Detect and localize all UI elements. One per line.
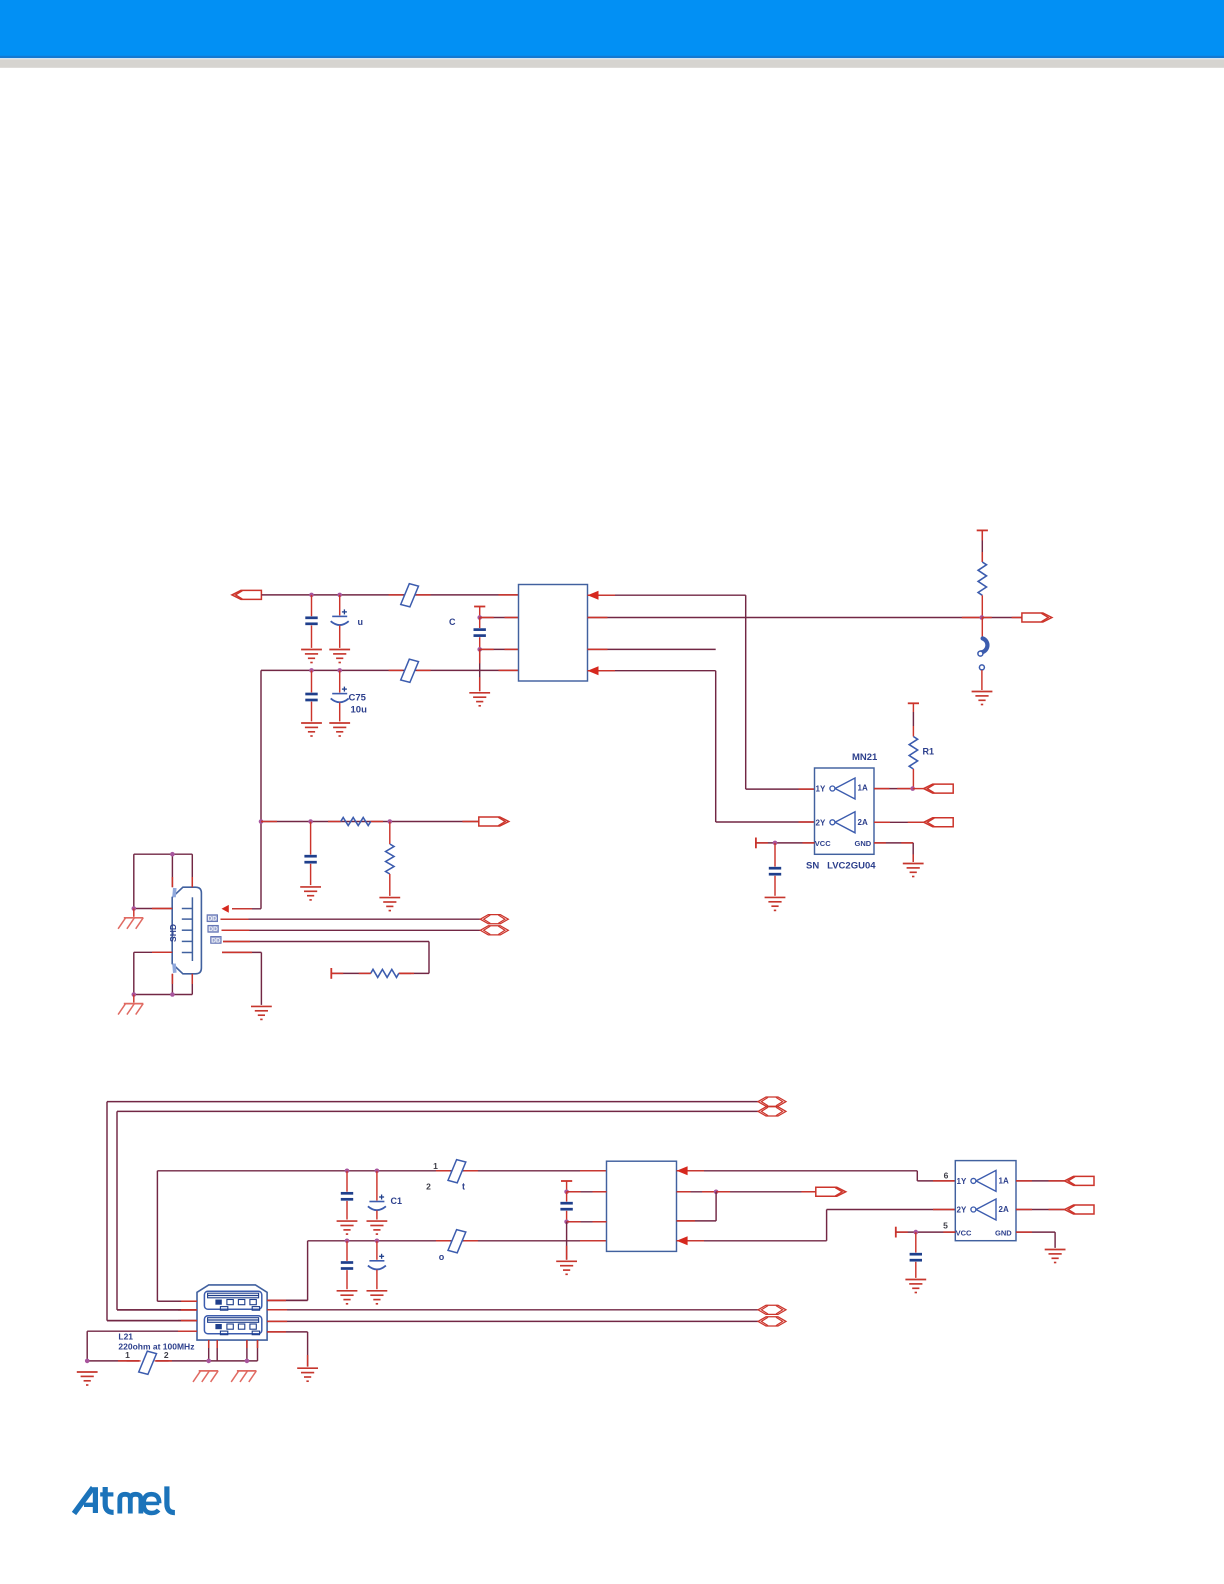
IC U1 (power switch) <box>519 585 588 682</box>
capacitor u (polarized) <box>331 595 349 648</box>
wire cap column lower <box>479 649 481 691</box>
wire tap down <box>566 1181 568 1192</box>
Atmel logo <box>74 1486 175 1513</box>
wire filter row <box>261 821 478 823</box>
header grey rule <box>0 59 1224 68</box>
wire USB pin1 with arrow <box>222 905 262 913</box>
ferrite bead (r1) <box>436 1170 450 1172</box>
wire to port 1A <box>913 788 924 790</box>
wire USB-A pin4 right <box>267 1332 308 1367</box>
wire USB-A pin1 left <box>157 1300 197 1302</box>
junction leg A <box>206 1359 211 1364</box>
ground <box>1045 1250 1066 1263</box>
resistor (ID pull) <box>399 972 411 974</box>
junction r1-c2 <box>375 1169 380 1174</box>
wire shield loop bottom <box>134 952 193 994</box>
junction shield left <box>132 906 137 911</box>
svg-text:1A: 1A <box>858 784 868 793</box>
wire resistor to terminal <box>331 972 370 974</box>
port P_left (left-pointing connector) <box>232 590 262 599</box>
capacitor (row B bypass) <box>305 670 317 721</box>
wire USB-A pin2 right (to port) <box>267 1309 758 1311</box>
power terminal VCC (lower inverter) <box>895 1227 897 1238</box>
power terminal (ID) <box>330 968 332 979</box>
power tap T (U2 VCC) <box>561 1180 572 1182</box>
wire top row 1 <box>107 1102 758 1321</box>
wire to chassis <box>133 995 135 1003</box>
wire 1A output <box>874 788 913 790</box>
svg-text:5: 5 <box>943 1221 948 1231</box>
wire USB-A pin4 left <box>87 1331 197 1361</box>
wire shield loop top <box>134 854 193 908</box>
svg-text:6: 6 <box>944 1171 949 1181</box>
wire U2 pin4R with arrow <box>677 1210 956 1246</box>
junction r2-c1 <box>345 1239 350 1244</box>
svg-text:VCC: VCC <box>815 839 831 848</box>
wire U2 pin1R with arrow <box>677 1166 956 1181</box>
junction A2 <box>337 593 342 598</box>
svg-text:2Y: 2Y <box>957 1206 967 1215</box>
USB-A port 2 graphic <box>204 1316 261 1335</box>
IC MN22 inverter box <box>955 1161 1016 1241</box>
resistor (pull-up) <box>978 562 986 595</box>
ground <box>77 1372 98 1385</box>
bidirectional port (row1) <box>758 1097 786 1106</box>
capacitor (r1 bypass) <box>341 1171 353 1220</box>
ground <box>367 1291 388 1304</box>
wire GND pin <box>874 842 913 844</box>
port 2A (left-pointing connector) <box>924 818 954 827</box>
ground <box>329 650 350 663</box>
junction filter C <box>308 819 313 824</box>
ground <box>301 650 322 663</box>
svg-text:u: u <box>358 617 364 627</box>
wire 2A output (lower) <box>1016 1209 1065 1211</box>
net label DD (pin2) <box>207 915 217 923</box>
junction filter R <box>388 819 393 824</box>
chassis ground <box>231 1371 256 1382</box>
svg-text:VCC: VCC <box>956 1228 972 1237</box>
inverter gate 1 (lower) <box>971 1170 996 1191</box>
ferrite bead (row A) <box>389 594 403 596</box>
net label DD (pin3) <box>208 925 218 933</box>
connector J_USBA shell <box>197 1285 267 1340</box>
wire pin2 left <box>480 617 519 619</box>
ground <box>301 723 322 736</box>
port 1A lower (left-pointing) <box>1065 1176 1095 1185</box>
wire L21 row <box>87 1360 257 1362</box>
wire row r2 (to IC) <box>267 1241 606 1301</box>
wire to chassis <box>133 909 135 917</box>
junction switch node <box>980 615 985 620</box>
wire USB pin4 <box>223 942 429 974</box>
svg-text:2: 2 <box>426 1182 431 1192</box>
wire rail to resistor <box>981 530 983 562</box>
wire cap column upper <box>479 607 481 618</box>
junction leg B <box>245 1359 250 1364</box>
junction shield bottom <box>170 992 175 997</box>
junction U2 vcc b <box>564 1220 569 1225</box>
solder jumper switch <box>978 618 988 691</box>
junction L21 left <box>85 1359 90 1364</box>
svg-text:DD: DD <box>208 926 218 933</box>
ground <box>905 1280 926 1293</box>
port 1A (left-pointing connector) <box>924 784 954 793</box>
wire U2 pin3 <box>567 1221 607 1223</box>
wire 1A output (lower) <box>1016 1180 1065 1182</box>
ground <box>337 1291 358 1304</box>
ferrite bead L21 <box>127 1360 141 1362</box>
port (right-pointing connector, filter out) <box>479 817 509 826</box>
junction shield top <box>170 852 175 857</box>
junction pin2R <box>714 1190 719 1195</box>
chassis ground <box>193 1371 218 1382</box>
svg-text:1A: 1A <box>999 1177 1009 1186</box>
ferrite bead (row B) <box>389 669 403 671</box>
ground <box>556 1261 577 1274</box>
resistor (series filter) <box>328 821 341 823</box>
wire resistor to junction <box>981 595 983 617</box>
wire shield legs <box>209 1340 258 1361</box>
resistor (pull-down) <box>386 822 394 896</box>
capacitor C1 (polarized) <box>368 1171 386 1220</box>
ground <box>765 897 786 910</box>
wire top row 2 <box>117 1111 758 1310</box>
svg-text:GND: GND <box>995 1228 1012 1237</box>
capacitor (lower inverter decoupling) <box>910 1232 922 1278</box>
port (right-pointing, U2 out) <box>816 1187 846 1196</box>
wire VCC pin <box>756 842 815 844</box>
junction B2 <box>337 668 342 673</box>
junction pin2 <box>477 615 482 620</box>
svg-text:C1: C1 <box>391 1196 403 1206</box>
inverter gate 2 (lower) <box>971 1199 996 1220</box>
junction pin3 <box>477 647 482 652</box>
junction r1-c1 <box>345 1169 350 1174</box>
ground <box>337 1221 358 1234</box>
ground <box>297 1368 318 1381</box>
ground <box>329 723 350 736</box>
junction V1/filter row <box>259 819 264 824</box>
IC U2 (lower power switch) <box>607 1161 677 1251</box>
ground <box>300 887 321 900</box>
wire V2 vertical <box>745 595 747 789</box>
svg-text:1Y: 1Y <box>957 1177 967 1186</box>
svg-text:2Y: 2Y <box>816 819 826 828</box>
capacitor (U2 decoupling) <box>560 1192 572 1222</box>
wire U2 pin2 <box>567 1191 607 1193</box>
svg-text:MN21: MN21 <box>852 752 878 763</box>
svg-text:SN LVC2GU04: SN LVC2GU04 <box>806 861 876 872</box>
junction VCC lower <box>914 1230 919 1235</box>
wire V3 to 2Y <box>716 821 815 823</box>
header blue banner <box>0 0 1224 58</box>
ground <box>469 693 490 706</box>
wire tap to ground <box>566 1222 568 1260</box>
ground <box>903 864 924 877</box>
bidirectional port (row2) <box>758 1107 786 1116</box>
wire junction to port <box>982 617 1022 619</box>
bidirectional port (pin3) <box>480 926 508 935</box>
wire USB pin5 to ground <box>222 952 261 1005</box>
capacitor (r2 polarized) <box>368 1241 386 1289</box>
wire USB-A pin1 right <box>267 1299 308 1301</box>
junction r2-c2 <box>375 1239 380 1244</box>
port P_right (right-pointing connector) <box>1022 613 1052 622</box>
port 2A lower (left-pointing) <box>1065 1205 1095 1214</box>
wire junction to port <box>716 1191 815 1193</box>
capacitor (MN21 decoupling) <box>769 843 781 896</box>
wire 2A output <box>874 821 924 823</box>
svg-text:R1: R1 <box>923 747 935 757</box>
wire V2 to 1Y <box>746 788 815 790</box>
junction B1 <box>309 668 314 673</box>
wire GND pin (lower) <box>1016 1232 1055 1248</box>
net label DD (pin4) <box>211 937 221 945</box>
connector J_miniUSB shell <box>172 887 201 974</box>
svg-text:GND: GND <box>855 839 872 848</box>
capacitor (row A bypass) <box>305 595 317 648</box>
junction VCC <box>773 841 778 846</box>
junction U2 vcc a <box>564 1190 569 1195</box>
junction A1 <box>309 593 314 598</box>
svg-text:L21: L21 <box>118 1332 133 1342</box>
wire row A (VBUS net) <box>262 594 519 596</box>
svg-text:t: t <box>462 1182 465 1192</box>
wire row r1 (to IC) <box>157 1171 606 1301</box>
capacitor C (decoupling) <box>474 618 486 650</box>
wire pin2 right <box>588 617 982 619</box>
wire pin4 right with input arrow <box>588 666 716 675</box>
svg-text:2A: 2A <box>858 818 868 827</box>
svg-text:2: 2 <box>164 1350 169 1360</box>
bidirectional port (pin2) <box>480 915 508 924</box>
svg-text:C75: C75 <box>349 693 367 704</box>
svg-text:DD: DD <box>208 916 218 923</box>
svg-text:o: o <box>439 1252 445 1262</box>
IC MN21 SN74LVC2GU04 box <box>815 768 875 854</box>
bidirectional port (USB D+) <box>758 1305 786 1314</box>
ground <box>972 692 993 705</box>
junction 1A/R1 <box>910 786 915 791</box>
wire U2 pin2R <box>677 1191 717 1193</box>
svg-text:10u: 10u <box>351 705 368 716</box>
wire pin3R loop <box>677 1192 717 1221</box>
wire USB pin3 to port <box>222 929 481 931</box>
ground <box>251 1006 272 1019</box>
wire USB-A pin3 left <box>107 1320 197 1322</box>
svg-text:1Y: 1Y <box>816 785 826 794</box>
svg-text:1: 1 <box>125 1350 130 1360</box>
USB-A port 1 graphic <box>204 1291 261 1310</box>
power tap T (cap column) <box>474 606 485 608</box>
ferrite bead (r2) <box>436 1240 450 1242</box>
wire GND down <box>912 843 914 862</box>
svg-text:C: C <box>449 617 456 627</box>
wire pin3 stub <box>588 648 716 650</box>
capacitor C75 10u (polarized) <box>331 670 349 721</box>
chassis ground <box>118 918 143 929</box>
wire V1 (row B down to USB) <box>260 670 262 908</box>
power tap T (pull-up rail) <box>977 529 988 531</box>
capacitor (r2 bypass) <box>341 1241 353 1289</box>
wire pin3 left <box>480 648 519 650</box>
wire USB-A pin3 right (to port) <box>267 1320 758 1322</box>
capacitor (filter) <box>304 822 316 886</box>
wire USB-A pin2 left <box>117 1309 197 1311</box>
chassis ground <box>118 1004 143 1015</box>
bidirectional port (USB D-) <box>758 1317 786 1326</box>
inverter gate 2 (MN21) <box>830 812 855 833</box>
power terminal VCC (MN21) <box>755 838 757 849</box>
wire row B <box>261 669 519 671</box>
svg-text:1: 1 <box>433 1161 438 1171</box>
wire USB pin2 to port <box>221 918 481 920</box>
junction shield bottom-left <box>132 992 137 997</box>
svg-text:SHD: SHD <box>168 924 178 942</box>
resistor R1 <box>908 703 919 788</box>
ground <box>367 1221 388 1234</box>
inverter gate 1 (MN21) <box>830 778 855 799</box>
wire V3 vertical <box>715 671 717 822</box>
svg-text:2A: 2A <box>999 1205 1009 1214</box>
wire pin1 right with input arrow <box>588 591 746 600</box>
ground <box>379 898 400 911</box>
svg-text:DD: DD <box>211 937 221 944</box>
wire VCC pin (lower) <box>896 1231 956 1233</box>
